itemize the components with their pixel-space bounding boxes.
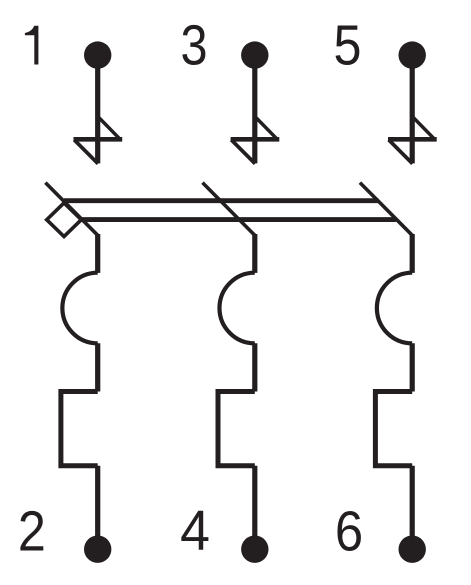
wire pole2 mid lead <box>252 234 257 273</box>
magnetic trip arc pole1 <box>62 273 97 344</box>
moving contact blade pole3 (slash) <box>360 183 413 237</box>
terminal 6 dot <box>399 536 426 563</box>
thermal overload element pole2 <box>218 392 255 466</box>
terminal 3 dot <box>241 41 268 68</box>
wire pole2 between trip elements <box>252 343 257 391</box>
breaker contact flag pole3: bar and lower diagonal <box>388 137 437 142</box>
breaker contact flag pole2: bar and lower diagonal <box>231 137 280 142</box>
thermal overload element pole1 <box>61 392 98 466</box>
terminal 1 dot <box>84 41 111 68</box>
operator diamond <box>47 203 82 237</box>
breaker contact flag pole1: bar and lower diagonal <box>74 137 123 142</box>
wire pole3 between trip elements <box>410 343 415 391</box>
wire pole3 bottom lead <box>410 466 415 549</box>
moving contact blade pole1 (slash) <box>45 183 98 237</box>
mechanical linkage lower bar <box>82 217 397 222</box>
terminal 4 dot <box>241 536 268 563</box>
svg-text:2: 2 <box>18 501 46 563</box>
svg-text:4: 4 <box>180 499 210 563</box>
terminal 5 dot <box>399 41 426 68</box>
svg-text:3: 3 <box>180 14 207 77</box>
wire pole2 bottom lead <box>252 466 257 549</box>
svg-text:5: 5 <box>334 15 362 77</box>
thermal overload element pole3 <box>375 392 412 466</box>
breaker contact flag pole3: upper diagonal <box>412 116 434 138</box>
breaker contact flag pole2: upper diagonal <box>255 116 276 138</box>
wire pole2 top lead <box>252 55 257 163</box>
wire pole3 top lead <box>410 55 415 163</box>
moving contact blade pole2 (slash) <box>203 183 256 237</box>
magnetic trip arc pole2 <box>219 273 254 344</box>
wire pole1 mid lead <box>95 234 100 273</box>
magnetic trip arc pole3 <box>377 273 412 344</box>
breaker contact flag pole1: upper diagonal <box>98 116 120 138</box>
wire pole1 bottom lead <box>95 466 100 549</box>
terminal 2 dot <box>84 536 111 563</box>
wire pole1 between trip elements <box>95 343 100 391</box>
mechanical linkage upper bar <box>64 198 379 203</box>
terminal label 1 <box>25 26 39 65</box>
svg-text:6: 6 <box>335 500 363 563</box>
wire pole1 top lead <box>95 55 100 163</box>
wire pole3 mid lead <box>410 234 415 273</box>
